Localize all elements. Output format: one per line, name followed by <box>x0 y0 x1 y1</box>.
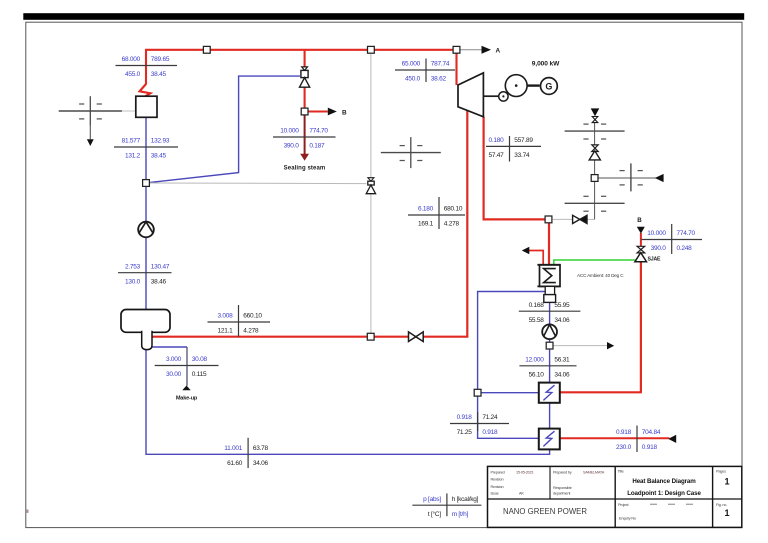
svg-text:33.74: 33.74 <box>514 152 530 159</box>
wire SJAE suction (green) <box>554 260 636 265</box>
value label gland outlet <box>636 426 638 453</box>
svg-text:department: department <box>553 492 571 496</box>
valve V3 relief stack <box>591 108 600 116</box>
border frame left tick <box>26 510 28 513</box>
wire sealing-steam PRV to node (red) <box>304 87 306 112</box>
generator shaft <box>527 84 540 86</box>
value label pump discharge <box>519 365 576 367</box>
svg-text:3.008: 3.008 <box>217 313 233 320</box>
svg-text:0.918: 0.918 <box>616 429 632 436</box>
svg-text:132.93: 132.93 <box>151 138 170 145</box>
svg-text:AK: AK <box>519 492 524 496</box>
turbine ST1 <box>458 73 483 117</box>
legend units cross <box>412 504 481 506</box>
svg-text:4.278: 4.278 <box>243 328 259 335</box>
value label sealing steam <box>273 136 336 138</box>
svg-text:ACC Ambient: 40 Deg C: ACC Ambient: 40 Deg C <box>577 273 624 278</box>
svg-text:704.84: 704.84 <box>642 429 661 436</box>
svg-text:G: G <box>545 81 552 91</box>
svg-text:Fig. no.: Fig. no. <box>716 503 727 507</box>
ACC hotwell tank <box>544 295 556 303</box>
wire boundary stub to boiler (thin) <box>122 110 136 112</box>
svg-text:455.0: 455.0 <box>125 71 141 78</box>
svg-text:55.58: 55.58 <box>529 317 545 324</box>
wire exhaust to ACC (red) <box>548 219 550 266</box>
valve PRV2 spare pegging <box>368 178 374 182</box>
wire A-arrow lead <box>460 49 482 51</box>
wire make-up to deaerator (blue) <box>152 346 187 348</box>
svg-text:3.000: 3.000 <box>166 356 182 363</box>
svg-text:1: 1 <box>724 477 729 487</box>
svg-text:Enquiry No: Enquiry No <box>619 517 636 521</box>
condensate pump P2 <box>542 324 557 339</box>
wire exhaust node to dump valve (thin) <box>553 218 573 220</box>
arrow boundary export down <box>87 139 94 146</box>
svg-text:450.0: 450.0 <box>405 76 421 83</box>
valve V4 SJAE motive <box>637 246 645 249</box>
inter-condenser HX2 <box>539 383 560 403</box>
svg-text:p [abs]: p [abs] <box>423 496 441 503</box>
ejector SJAE cone <box>635 253 647 262</box>
svg-text:0.248: 0.248 <box>677 245 693 252</box>
arrow sealing steam down (maroon) <box>300 154 309 161</box>
value label extraction <box>408 214 465 216</box>
svg-text:30.08: 30.08 <box>192 356 208 363</box>
wire turbine inlet drop (red) <box>455 50 457 85</box>
svg-text:57.47: 57.47 <box>488 152 504 159</box>
svg-text:Prepared by: Prepared by <box>553 471 572 475</box>
svg-text:0.187: 0.187 <box>309 143 325 150</box>
svg-text:Prepared: Prepared <box>491 471 505 475</box>
svg-text:38.45: 38.45 <box>151 153 167 160</box>
ACC hotwell neck <box>545 286 554 294</box>
boundary cross X3 (relief upper) <box>565 130 625 132</box>
svg-text:0.180: 0.180 <box>488 137 504 144</box>
svg-text:38.46: 38.46 <box>151 278 167 285</box>
wire pump drain lead (thin) <box>553 345 607 347</box>
svg-text:390.0: 390.0 <box>651 245 667 252</box>
arrow gland outlet (left) <box>668 435 676 443</box>
svg-text:Heat Balance Diagram: Heat Balance Diagram <box>632 478 696 485</box>
gearbox wheel circle <box>505 75 527 97</box>
svg-text:65.000: 65.000 <box>402 61 421 68</box>
svg-text:t [°C]: t [°C] <box>428 510 441 518</box>
gearbox pinion circle <box>499 92 508 101</box>
turbine shaft <box>484 95 499 97</box>
wire sealing-steam drop (maroon) <box>304 112 306 154</box>
svg-text:34.06: 34.06 <box>554 372 570 379</box>
wire extraction drop (red) <box>152 110 467 337</box>
wire main steam: boiler riser + top header <box>146 50 457 85</box>
wire SJAE condensate branch (blue) <box>478 292 546 393</box>
svg-text:787.74: 787.74 <box>431 61 450 68</box>
wire boiler inlet zigzag (red) <box>140 84 151 97</box>
svg-text:61.60: 61.60 <box>227 460 243 467</box>
svg-text:0.115: 0.115 <box>192 371 207 378</box>
wire ACC condensate to pump (blue) <box>549 296 551 325</box>
ACC coil zigzag <box>544 269 556 283</box>
svg-text:15-05-2021: 15-05-2021 <box>516 471 534 475</box>
svg-text:130.47: 130.47 <box>151 263 170 270</box>
svg-text:Pages: Pages <box>716 470 726 474</box>
arrow air inlet (left) <box>655 174 664 182</box>
node J1 main steam header <box>203 46 210 53</box>
wire desuperheater spray (blue) <box>149 76 300 183</box>
svg-text:m [t/h]: m [t/h] <box>452 511 469 518</box>
arrow B2 SJAE supply (down) <box>637 227 645 234</box>
title block divider v2 <box>614 466 616 527</box>
wire node to inter-condenser (blue) <box>478 392 539 394</box>
svg-text:557.89: 557.89 <box>514 137 533 144</box>
wire inter-condenser steam (red) <box>560 391 642 393</box>
value label make-up <box>155 365 219 367</box>
svg-text:774.70: 774.70 <box>309 128 328 135</box>
title block outer <box>488 466 742 527</box>
wire node to spare PRV (thin) <box>149 182 366 185</box>
svg-text:55.95: 55.95 <box>554 302 570 309</box>
svg-text:680.10: 680.10 <box>444 206 463 213</box>
svg-text:169.1: 169.1 <box>418 221 434 228</box>
svg-text:390.0: 390.0 <box>284 143 300 150</box>
title block divider h1 <box>488 498 742 500</box>
svg-text:0.168: 0.168 <box>529 302 545 309</box>
title block divider v3 <box>712 466 714 527</box>
boundary cross X1 (boiler heat input) <box>59 110 122 112</box>
wire node to gland condenser (blue) <box>478 393 539 439</box>
wire SJAE motive steam (red) <box>640 233 642 247</box>
svg-text:660.10: 660.10 <box>243 313 262 320</box>
wire inter-condenser to gland condenser (blue) <box>549 403 551 429</box>
svg-text:12.000: 12.000 <box>525 356 544 363</box>
svg-text:68.000: 68.000 <box>122 56 141 63</box>
svg-text:121.1: 121.1 <box>217 328 233 335</box>
wire SJAE discharge down (red) <box>640 253 642 393</box>
svg-text:63.78: 63.78 <box>253 445 269 452</box>
wire sealing-steam branch upper (red) <box>304 50 306 70</box>
gland condenser HX3 <box>539 429 560 450</box>
wire relief stack upper (thin) <box>594 116 596 145</box>
svg-text:774.70: 774.70 <box>677 230 696 237</box>
wire dump valve to stack (thin) <box>587 218 595 220</box>
svg-text:A: A <box>496 48 501 55</box>
wire relief stack mid (thin) <box>594 160 596 175</box>
svg-text:0.918: 0.918 <box>482 429 498 436</box>
value label SJAE steam <box>642 239 703 241</box>
svg-text:38.45: 38.45 <box>151 71 167 78</box>
arrow make-up in (up) <box>182 386 190 391</box>
svg-text:71.25: 71.25 <box>457 429 473 436</box>
boundary cross X2 (sealing steam) <box>381 152 441 154</box>
svg-text:38.62: 38.62 <box>431 76 447 83</box>
node J2 spare PRV tee <box>368 46 375 53</box>
wire relief stack lower (thin) <box>594 181 596 219</box>
svg-text:0.918: 0.918 <box>642 444 658 451</box>
boundary cross X4 (relief lower) <box>565 202 625 204</box>
svg-text:789.65: 789.65 <box>151 56 170 63</box>
wire condensate return bottom (blue) <box>146 349 550 454</box>
wire ACC vent hook (red) <box>529 251 544 266</box>
value label SJAE condensate <box>450 423 509 425</box>
svg-text:71.24: 71.24 <box>482 414 498 421</box>
arrow A off-page (right) <box>482 46 492 54</box>
svg-text:Project: Project <box>618 503 630 507</box>
svg-text:34.06: 34.06 <box>253 460 269 467</box>
wire feedwater riser (blue) <box>145 97 147 311</box>
svg-text:h [kcal/kg]: h [kcal/kg] <box>452 496 479 503</box>
arrow pump drain (right) <box>607 342 614 349</box>
svg-text:0.918: 0.918 <box>457 414 473 421</box>
arrow B off-page (right) <box>328 108 337 116</box>
ACC air cooled condenser HX1 body <box>540 265 561 287</box>
node J8 relief stack <box>591 175 598 182</box>
value label boiler feed <box>114 146 178 148</box>
svg-text:SAMELMATA: SAMELMATA <box>583 471 605 475</box>
svg-text:34.06: 34.06 <box>554 317 570 324</box>
svg-text:4.278: 4.278 <box>444 221 460 228</box>
deaerator FWT neck <box>142 331 152 350</box>
wire make-up riser <box>186 347 188 386</box>
svg-text:6.180: 6.180 <box>418 206 434 213</box>
node J3 turbine inlet tee <box>453 46 460 53</box>
wire pump discharge (blue) <box>549 339 551 383</box>
svg-text:11.001: 11.001 <box>224 445 243 452</box>
svg-text:9,000 kW: 9,000 kW <box>532 61 560 68</box>
svg-text:56.31: 56.31 <box>554 356 570 363</box>
boundary cross X5 (air inlet, rotated) <box>630 163 632 191</box>
value label turbine inlet <box>395 69 455 71</box>
arrow ACC vent (left) <box>522 247 530 254</box>
svg-text:B: B <box>637 217 642 224</box>
valve V1 extraction isolating <box>409 332 416 342</box>
svg-text:Revision: Revision <box>491 477 504 481</box>
wire gland condenser outlet (red) <box>560 437 670 439</box>
svg-text:Revision: Revision <box>491 485 504 489</box>
wire boundary export lead <box>89 126 91 140</box>
node J10 condensate tee <box>474 389 481 396</box>
svg-text:Make-up: Make-up <box>176 395 198 401</box>
title block divider v1 <box>549 466 551 499</box>
generator G1 <box>541 78 558 95</box>
value label boiler outlet <box>116 65 178 67</box>
svg-text:NANO GREEN POWER: NANO GREEN POWER <box>503 507 587 516</box>
deaerator FWT head <box>121 310 170 333</box>
svg-text:230.0: 230.0 <box>616 444 632 451</box>
wire sealing-steam to B arrow (red) <box>305 111 328 113</box>
svg-text:10.000: 10.000 <box>280 128 299 135</box>
value label ACC condensate <box>519 310 581 312</box>
boiler feed pump P1 <box>138 222 154 238</box>
border frame top black bar <box>23 13 744 20</box>
svg-text:2.753: 2.753 <box>125 263 141 270</box>
svg-text:30.00: 30.00 <box>166 371 182 378</box>
wire spare PRV line lower (thin) <box>370 194 372 334</box>
svg-text:B: B <box>342 109 347 116</box>
node J6 pegging tie-in <box>367 333 374 340</box>
svg-text:1: 1 <box>724 508 729 518</box>
node J4 desuperheater tee <box>143 180 150 187</box>
svg-text:81.577: 81.577 <box>122 138 141 145</box>
wire turbine exhaust drop (red) <box>484 117 549 220</box>
svg-text:Issue: Issue <box>491 492 499 496</box>
value label condensate return <box>247 438 249 468</box>
wire spare PRV line upper (thin) <box>370 50 372 178</box>
ACC flange lines <box>537 264 560 266</box>
svg-text:10.000: 10.000 <box>647 230 666 237</box>
wire air inlet lead (thin) <box>598 177 663 179</box>
boiler B1 <box>136 96 157 117</box>
valve V2 steam dump isolating <box>573 215 580 223</box>
node J5 sealing steam tee <box>301 108 308 115</box>
node J9 pump drain tee <box>546 342 553 349</box>
node J7 exhaust dump tee <box>545 216 552 223</box>
valve PRV1 sealing steam <box>302 67 308 71</box>
svg-text:SJAE: SJAE <box>648 257 661 263</box>
value label BFP discharge <box>118 272 172 274</box>
value label deaerator steam <box>208 321 271 323</box>
svg-text:Responsible: Responsible <box>553 486 572 490</box>
svg-text:130.0: 130.0 <box>125 278 141 285</box>
svg-text:Loadpoint 1: Design Case: Loadpoint 1: Design Case <box>627 490 701 497</box>
svg-text:131.2: 131.2 <box>125 153 141 160</box>
value label turbine exhaust <box>486 145 541 147</box>
svg-text:56.10: 56.10 <box>529 372 545 379</box>
svg-text:Sealing steam: Sealing steam <box>284 165 326 171</box>
svg-text:Title: Title <box>618 470 624 474</box>
